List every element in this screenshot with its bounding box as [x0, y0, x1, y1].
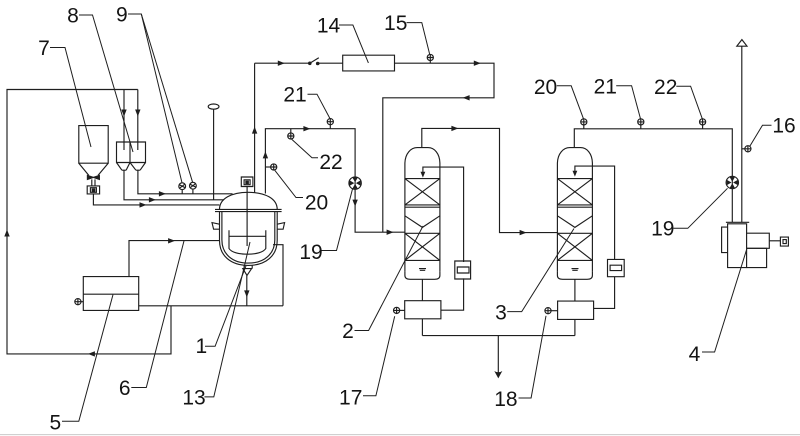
leader label 9a: [128, 14, 182, 183]
wire injector 9 left stub: [181, 190, 183, 194]
svg-text:5: 5: [49, 412, 61, 435]
valve 21 first cross: [327, 119, 333, 125]
reactor body inner jacket: [222, 212, 275, 264]
arrow feed line 3 right: [140, 202, 147, 207]
leader label 20 first: [275, 170, 303, 197]
vent cap: [208, 104, 219, 109]
leader label 9b: [141, 14, 192, 182]
wire column C3 reflux: [575, 166, 615, 259]
arrow return left: [463, 95, 470, 100]
pump P4 terminal box: [780, 237, 788, 246]
arrow riser up x254: [252, 127, 257, 134]
valve 22 second: [700, 119, 706, 125]
svg-text:4: 4: [689, 343, 701, 366]
column C3 bottom cap: [557, 271, 592, 279]
valve 19 first body: [349, 177, 361, 189]
pump P4 left block: [722, 227, 728, 253]
valve 20 first: [271, 164, 277, 170]
svg-text:19: 19: [299, 241, 322, 264]
svg-text:2: 2: [342, 320, 354, 343]
svg-text:21: 21: [283, 84, 306, 107]
valve 22 second cross: [700, 119, 706, 125]
reboiler E18: [558, 301, 594, 319]
leader label 15: [407, 23, 430, 55]
arrow feed line 1 right: [159, 191, 166, 196]
wire reactor vapor riser: [254, 63, 256, 192]
rotary feeder hopper 7: [87, 186, 99, 194]
wire hopper 7 outlet: [93, 194, 219, 205]
valve 21 second cross: [638, 119, 644, 125]
reactor body outer: [220, 212, 278, 266]
hopper 8 twin: [117, 142, 146, 170]
condenser 14: [343, 55, 395, 71]
level gauge C3: [608, 259, 625, 276]
valve 16: [745, 146, 751, 152]
arrow hopper drop right down: [135, 110, 140, 117]
arrow feed line 2 right: [149, 197, 156, 202]
pump P4 body: [728, 224, 747, 268]
break symbol lever: [310, 58, 319, 64]
pump P4 motor: [747, 233, 770, 248]
bottom page edge: [0, 434, 800, 436]
svg-text:20: 20: [534, 76, 557, 99]
wire valve 22 second stub: [702, 125, 704, 129]
wire top-left recycle loop: [7, 90, 171, 354]
wire bottoms manifold: [422, 335, 575, 337]
leader label 7: [50, 48, 91, 148]
valve at E5: [75, 299, 81, 305]
svg-text:20: 20: [305, 192, 328, 215]
feeder inner square fill: [92, 189, 95, 192]
wire reactor side outlet: [273, 245, 283, 306]
leader label 21 first: [308, 94, 331, 118]
arrow E5 transfer right: [168, 238, 175, 243]
agitator shaft: [246, 187, 248, 247]
wire column C2 bottoms: [421, 279, 423, 300]
svg-text:15: 15: [384, 12, 407, 35]
svg-text:1: 1: [196, 335, 208, 358]
valve 18: [545, 308, 551, 314]
wire hopper 8 right outlet: [138, 170, 233, 194]
svg-text:14: 14: [317, 15, 341, 38]
leader label 19 first: [321, 189, 352, 251]
arrow riser up x265: [263, 151, 268, 158]
wire column C2 feed from overhead: [422, 128, 558, 232]
wire hopper 8 left outlet: [124, 170, 224, 200]
valve 21 second: [638, 119, 644, 125]
leader label 18: [519, 316, 547, 398]
reactor bottom nozzle: [244, 265, 252, 268]
wire top overhead line left: [255, 62, 343, 64]
leader label 21 second: [616, 86, 640, 119]
leader label 4: [702, 249, 747, 352]
valve 15 cross: [427, 54, 433, 60]
valve 20 second cross: [581, 119, 587, 125]
wire valve 21 second stub: [640, 125, 642, 129]
valve 19 second wedges: [727, 177, 738, 188]
wire vent line: [213, 109, 215, 200]
valve 20 second: [581, 119, 587, 125]
arrow branch line right: [303, 126, 310, 131]
wire reboiler E17 drop: [421, 319, 423, 336]
column C2 distributor: [405, 216, 440, 228]
agitator motor: [241, 177, 253, 187]
leader label 2: [355, 226, 424, 331]
valve 18 cross: [545, 308, 551, 314]
column C2 packing X upper: [405, 179, 440, 205]
column C2 level mark: [419, 269, 426, 271]
column C3 shell: [557, 148, 592, 272]
column C3 level mark: [572, 269, 579, 271]
arrow recycle up: [4, 230, 9, 237]
valve 17: [394, 307, 400, 313]
column C2 bottom cap: [405, 271, 440, 279]
wire valve 15 stub: [429, 61, 431, 64]
valve 19 second body: [726, 176, 738, 188]
wire column C2 reflux: [423, 167, 464, 262]
valve 16 cross: [745, 146, 751, 152]
svg-text:16: 16: [772, 115, 795, 138]
injector 9 right cross: [190, 184, 196, 188]
leader label 17: [363, 316, 395, 396]
wire column C3 overhead: [574, 129, 732, 223]
arrow recycle bottom left: [88, 351, 95, 356]
svg-text:19: 19: [651, 218, 674, 241]
leader label 16: [750, 125, 772, 146]
leader label 22 second: [676, 86, 702, 119]
column C3 packing X lower: [557, 233, 592, 260]
wire injector 9 right stub: [192, 189, 194, 194]
valve at E5 cross: [75, 299, 81, 305]
hopper 7: [79, 126, 108, 176]
feeder stem hopper 7: [92, 179, 95, 186]
heat exchanger E5: [83, 277, 138, 311]
arrow C2 feed right: [387, 230, 394, 235]
wire gauge C3 to reboiler: [594, 277, 615, 309]
wire reactor bottom outlet: [246, 275, 248, 305]
leader label 20 second: [557, 86, 584, 119]
arrow C3 feed right: [520, 230, 527, 235]
column C2 tray line: [405, 206, 440, 208]
leader label 8: [79, 15, 133, 152]
wire reactor bottoms header: [139, 305, 283, 307]
wire feed drop into hopper 8 left: [123, 90, 125, 151]
wire valve E5 stub: [81, 301, 83, 303]
valve 20 first stub: [265, 166, 270, 168]
reactor lug right: [277, 223, 284, 230]
column C2 shell: [405, 148, 440, 272]
reactor bottom valve triangle: [243, 269, 252, 276]
wire gauge C2 to reboiler: [441, 278, 464, 310]
leader label 6: [131, 241, 184, 388]
svg-text:22: 22: [319, 151, 342, 174]
reactor lug left: [212, 223, 220, 230]
wire drain drop: [497, 336, 499, 376]
reboiler E17: [405, 301, 441, 319]
arrow drain down: [494, 371, 502, 378]
arrow C2 overhead right: [451, 126, 458, 131]
column C3 distributor: [557, 216, 592, 228]
agitator motor inner square: [246, 181, 248, 183]
reactor inner vessel 13: [229, 230, 266, 254]
valve 17 cross: [394, 307, 400, 313]
level gauge C2: [455, 261, 471, 279]
leader label 5: [62, 295, 113, 422]
wire vent stack: [741, 46, 743, 222]
arrow down below valve 19: [352, 200, 357, 207]
wire reactor gas branch riser: [265, 129, 405, 233]
valve 22 first stub: [290, 129, 292, 133]
svg-text:7: 7: [38, 37, 50, 60]
wire valve 17 stub: [400, 309, 405, 311]
arrow reactor bottoms down: [244, 290, 249, 297]
svg-text:21: 21: [594, 76, 617, 99]
wire top overhead line right: [383, 63, 494, 232]
valve 19 first wedges: [349, 177, 360, 188]
svg-text:8: 8: [67, 5, 79, 28]
valve 21 first: [327, 119, 333, 125]
leader label 13: [204, 242, 250, 397]
wire reboiler E18 drop: [574, 319, 576, 335]
arrow overhead right 1: [278, 61, 285, 66]
vent triangle: [737, 40, 747, 47]
leader label 3: [507, 229, 574, 312]
injector 9 left cross: [179, 184, 185, 188]
pump P4 flange: [726, 221, 749, 223]
arrow C2 reflux down: [421, 172, 426, 178]
injector 9 left: [179, 183, 186, 190]
svg-text:22: 22: [654, 76, 677, 99]
svg-text:18: 18: [494, 388, 517, 411]
pump P4 lower block: [747, 248, 767, 267]
injector 9 right: [190, 182, 197, 189]
valve 22 first cross: [288, 133, 294, 139]
leader label 1: [205, 266, 246, 347]
pump P4 shaft: [769, 240, 780, 242]
break symbol contacts: [308, 62, 320, 66]
wire column C3 bottoms: [574, 279, 576, 301]
arrow C3 reflux down: [573, 171, 578, 177]
arrow overhead right 2: [474, 61, 481, 66]
arrow hopper drop left down: [121, 110, 126, 117]
wire valve 21 first stub: [329, 125, 331, 129]
valve 15: [427, 54, 433, 60]
svg-text:9: 9: [116, 4, 128, 27]
valve bowtie under hopper 7: [87, 175, 99, 179]
reactor flange: [215, 209, 282, 211]
wire valve 16 stub: [742, 148, 745, 150]
svg-text:3: 3: [495, 302, 507, 325]
valve 20 first cross: [271, 164, 277, 170]
svg-text:13: 13: [182, 387, 205, 410]
column C2 packing X lower: [405, 233, 440, 260]
valve 22 first: [288, 133, 294, 139]
leader label 19 second: [674, 188, 728, 228]
svg-text:17: 17: [339, 387, 362, 410]
svg-text:6: 6: [119, 377, 131, 400]
reactor R1 dome: [220, 192, 278, 209]
column C3 packing X upper: [557, 179, 592, 205]
column C3 tray line: [557, 206, 592, 208]
leader label 22 first: [292, 139, 318, 158]
wire valve 18 stub: [551, 310, 558, 312]
wire feed drop into hopper 8 right: [137, 90, 139, 151]
leader label 14: [339, 25, 368, 63]
wire valve 20 second stub: [583, 125, 585, 129]
wire E5 to reactor transfer: [129, 241, 219, 277]
